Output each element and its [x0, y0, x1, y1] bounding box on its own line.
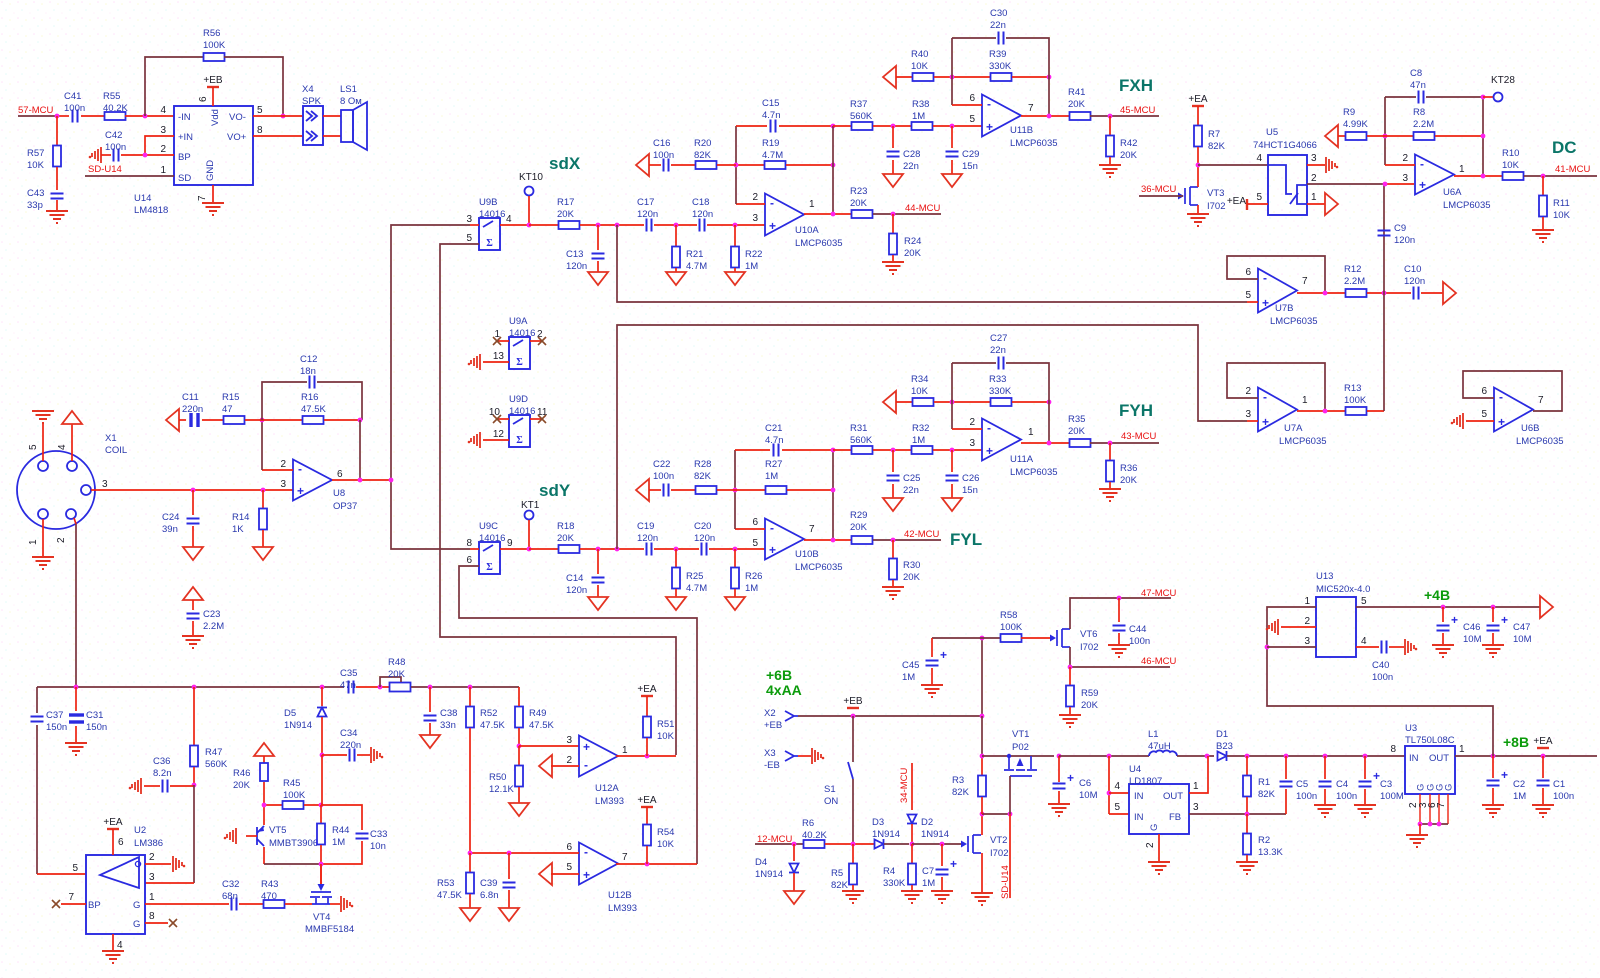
capacitor C16: [649, 164, 661, 166]
svg-text:R21: R21: [686, 249, 703, 260]
svg-text:KT28: KT28: [1491, 75, 1515, 86]
junction R26: [733, 547, 738, 552]
capacitor C4: [1324, 756, 1326, 779]
ground C31: [65, 743, 87, 755]
resistor R17: [529, 224, 559, 226]
wire C18 to U10A: [707, 224, 765, 226]
op-amp U6B: [1494, 388, 1533, 432]
svg-text:G: G: [133, 919, 140, 930]
svg-text:R25: R25: [686, 571, 703, 582]
power +EA R7: [1192, 105, 1204, 107]
svg-text:R15: R15: [222, 392, 239, 403]
svg-text:C14: C14: [566, 573, 583, 584]
terminal KT28: [1483, 96, 1493, 98]
op-amp U11A: [982, 419, 1021, 461]
svg-text:10K: 10K: [1502, 160, 1520, 171]
ground C24: [183, 547, 203, 560]
svg-text:6: 6: [1481, 386, 1487, 397]
switch U9D 14016: [509, 415, 530, 447]
svg-text:+IN: +IN: [178, 132, 193, 143]
svg-text:VT4: VT4: [313, 912, 330, 923]
svg-text:R27: R27: [765, 459, 782, 470]
ground U3: [1406, 835, 1428, 847]
ground R5: [842, 891, 864, 903]
svg-text:10M: 10M: [1463, 634, 1482, 645]
wire R18 to C19: [580, 548, 644, 550]
svg-text:1M: 1M: [912, 435, 925, 446]
svg-text:+6B: +6B: [766, 667, 792, 683]
svg-text:C37: C37: [46, 710, 63, 721]
svg-text:2: 2: [1304, 616, 1310, 627]
wire R6 to S1: [825, 843, 874, 845]
svg-text:7: 7: [68, 892, 74, 903]
svg-text:220n: 220n: [182, 404, 203, 415]
svg-text:C9: C9: [1394, 223, 1406, 234]
svg-text:1M: 1M: [912, 111, 925, 122]
wire R39 right: [1012, 76, 1049, 78]
svg-text:COIL: COIL: [105, 445, 127, 456]
capacitor C47: [1492, 607, 1494, 622]
svg-text:13: 13: [493, 351, 505, 362]
svg-text:82K: 82K: [694, 471, 712, 482]
svg-text:47.5K: 47.5K: [301, 404, 326, 415]
transistor VT2 I702: [968, 835, 981, 853]
svg-text:L1: L1: [1148, 729, 1159, 740]
svg-text:4: 4: [1114, 781, 1120, 792]
svg-text:4: 4: [57, 444, 68, 450]
wire R33 right: [1012, 401, 1049, 403]
svg-text:3: 3: [160, 125, 166, 136]
svg-text:4.7n: 4.7n: [765, 435, 784, 446]
VT2 drain wire: [981, 814, 983, 835]
svg-text:+EA: +EA: [637, 684, 657, 695]
resistor R12: [1346, 289, 1367, 297]
ground U14 pin7: [202, 203, 224, 215]
capacitor C23 node: [183, 587, 203, 600]
resistor R20: [671, 164, 696, 166]
capacitor C28: [892, 126, 894, 148]
capacitor C21: [774, 444, 779, 457]
svg-text:R44: R44: [332, 825, 349, 836]
svg-text:C36: C36: [153, 756, 170, 767]
VT3 source ground wire: [1197, 205, 1199, 214]
svg-text:-: -: [987, 421, 991, 435]
resistor R33: [991, 398, 1012, 406]
junction R11: [1541, 174, 1546, 179]
svg-text:+: +: [1498, 415, 1505, 429]
svg-text:LM386: LM386: [134, 838, 163, 849]
svg-text:120n: 120n: [637, 209, 658, 220]
svg-text:2: 2: [280, 459, 286, 470]
svg-text:C11: C11: [182, 392, 199, 403]
ground C44: [1108, 645, 1130, 657]
wire bus left down to U2 pin5: [36, 687, 38, 713]
svg-text:IN: IN: [1134, 812, 1144, 823]
resistor R32: [912, 446, 933, 454]
svg-text:2: 2: [969, 417, 975, 428]
wire R12 to C10: [1367, 292, 1411, 294]
resistor R29: [852, 536, 873, 544]
svg-text:U12B: U12B: [608, 890, 632, 901]
svg-text:14016: 14016: [509, 406, 535, 417]
switch U9A 14016: [509, 337, 530, 369]
U6A feedback network: [1385, 96, 1416, 98]
svg-text:SPK: SPK: [302, 96, 322, 107]
svg-text:LD1807: LD1807: [1129, 776, 1162, 787]
U5 pin5 +EA: [1246, 199, 1248, 210]
trimmer R48: [390, 683, 411, 692]
svg-text:FYL: FYL: [950, 530, 982, 549]
svg-text:1M: 1M: [332, 837, 345, 848]
resistor R1: [1246, 756, 1248, 776]
wire R37 input: [833, 125, 852, 127]
wire 42-MCU: [873, 539, 941, 541]
ground R50: [509, 803, 529, 816]
svg-text:R28: R28: [694, 459, 711, 470]
junction pin3 node: [1383, 182, 1388, 187]
svg-text:U9D: U9D: [509, 394, 528, 405]
svg-text:3: 3: [149, 872, 155, 883]
U13 pin4 wire C40: [1356, 646, 1379, 648]
svg-text:2: 2: [566, 755, 572, 766]
svg-text:1: 1: [809, 199, 815, 210]
wire 36-MCU to VT3 gate: [1139, 195, 1183, 197]
svg-text:LMCP6035: LMCP6035: [1010, 467, 1058, 478]
U3 output wire: [1455, 755, 1597, 757]
capacitor C15: [771, 120, 776, 133]
junction X1 pin2 bus: [74, 685, 79, 690]
svg-text:I702: I702: [1080, 642, 1099, 653]
svg-text:R54: R54: [657, 827, 674, 838]
wire 12-MCU row: [755, 843, 804, 845]
resistor R14: [262, 490, 264, 509]
svg-text:R4: R4: [883, 866, 895, 877]
svg-text:8: 8: [149, 911, 155, 922]
junction C47: [1491, 605, 1496, 610]
capacitor C2: [1492, 756, 1494, 778]
ground R14: [253, 547, 273, 560]
svg-text:R46: R46: [233, 768, 250, 779]
svg-text:FXH: FXH: [1119, 76, 1153, 95]
resistor R10: [1503, 172, 1524, 180]
resistor R53: [469, 853, 471, 873]
main bus lower: [37, 686, 344, 688]
svg-text:-IN: -IN: [178, 112, 191, 123]
svg-text:22n: 22n: [990, 20, 1006, 31]
capacitor C14: [597, 549, 599, 574]
svg-text:B23: B23: [1216, 741, 1233, 752]
U8 output wire: [332, 479, 391, 481]
svg-text:4.7M: 4.7M: [686, 261, 707, 272]
junction U10B out: [831, 538, 836, 543]
svg-text:Σ: Σ: [516, 435, 523, 446]
capacitor C30: [999, 32, 1004, 45]
svg-text:8: 8: [257, 125, 263, 136]
svg-text:D5: D5: [284, 708, 296, 719]
resistor R54: [643, 825, 651, 846]
svg-text:1: 1: [1302, 395, 1308, 406]
resistor R56: [204, 53, 225, 61]
svg-text:U5: U5: [1266, 127, 1278, 138]
resistor R4: [911, 844, 913, 864]
svg-text:15n: 15n: [962, 485, 978, 496]
svg-text:R29: R29: [850, 510, 867, 521]
arrow U12B pin5: [539, 863, 552, 885]
svg-text:R18: R18: [557, 521, 574, 532]
resistor R6: [804, 840, 825, 848]
svg-text:R40: R40: [911, 49, 928, 60]
junction R8 right: [1481, 134, 1486, 139]
svg-text:100n: 100n: [64, 103, 85, 114]
ground sideways C34: [371, 747, 380, 763]
svg-text:5: 5: [1481, 409, 1487, 420]
svg-text:1: 1: [622, 745, 628, 756]
capacitor C41: [73, 110, 78, 123]
junction R12/C9: [1382, 291, 1387, 296]
junction R16 right: [358, 418, 363, 423]
ground C4: [1314, 805, 1336, 817]
svg-text:-: -: [584, 758, 588, 772]
capacitor C37: [31, 717, 44, 722]
svg-text:47n: 47n: [340, 680, 356, 691]
svg-text:10K: 10K: [1553, 210, 1571, 221]
svg-text:BP: BP: [88, 900, 101, 911]
resistor R25: [675, 549, 677, 568]
ground R11: [1532, 230, 1554, 242]
bus sdY to U7A pin3: [617, 325, 1247, 549]
resistor R45: [264, 804, 283, 806]
junction R33 right: [1047, 400, 1052, 405]
U11B output: [1021, 115, 1070, 117]
junction BP: [143, 153, 148, 158]
svg-text:34-MCU: 34-MCU: [899, 767, 910, 803]
resistor R35: [1070, 439, 1091, 447]
arrow C11 input: [166, 409, 179, 431]
capacitor C32: [232, 898, 237, 911]
junction VT4 gate node: [319, 862, 324, 867]
capacitor C35: [349, 681, 354, 694]
svg-text:R20: R20: [694, 138, 711, 149]
arrow R46 top: [254, 743, 274, 756]
wire C20 to U10B: [709, 548, 765, 550]
diode D4 1N914: [793, 844, 795, 861]
junction C36: [192, 783, 197, 788]
resistor R24: [892, 214, 894, 234]
svg-text:OP37: OP37: [333, 501, 357, 512]
svg-text:BP: BP: [178, 152, 191, 163]
wire VT4 gate: [320, 864, 322, 884]
resistor R42: [1109, 116, 1111, 136]
VT2 source ground: [981, 853, 983, 893]
resistor R23: [852, 210, 873, 218]
svg-text:R58: R58: [1000, 610, 1017, 621]
capacitor C20: [702, 543, 707, 556]
ground sideways C36: [132, 778, 141, 794]
svg-text:3: 3: [1193, 802, 1199, 813]
junction C46: [1441, 605, 1446, 610]
svg-text:82K: 82K: [694, 150, 712, 161]
svg-text:GND: GND: [205, 160, 216, 181]
svg-text:R7: R7: [1208, 129, 1220, 140]
svg-text:+: +: [769, 219, 776, 233]
resistor R19: [736, 164, 765, 166]
svg-text:C17: C17: [637, 197, 654, 208]
feedback R34 R33 row: [883, 391, 896, 413]
wire R16 to output: [359, 420, 361, 480]
wire C21 to R31 node: [782, 449, 833, 451]
junction R53: [468, 851, 473, 856]
svg-text:1N914: 1N914: [284, 720, 312, 731]
feedback vertical U10A: [736, 203, 765, 205]
svg-text:100K: 100K: [283, 790, 306, 801]
capacitor C27: [999, 357, 1004, 370]
svg-text:220n: 220n: [340, 740, 361, 751]
wire to U12A pin3: [519, 745, 579, 747]
capacitor C10: [1414, 287, 1419, 300]
resistor R49: [515, 707, 523, 728]
svg-text:120n: 120n: [566, 261, 587, 272]
resistor R8: [1414, 132, 1435, 140]
op-amp U11B: [982, 95, 1021, 137]
svg-text:U7A: U7A: [1284, 423, 1303, 434]
svg-text:7: 7: [1436, 802, 1447, 808]
junction R45 left: [262, 803, 267, 808]
capacitor C29: [951, 126, 953, 148]
svg-text:MIC520x-4.0: MIC520x-4.0: [1316, 584, 1370, 595]
svg-text:20K: 20K: [1120, 150, 1138, 161]
bus sdX to U7B pin5: [617, 225, 1247, 302]
wire VT2 node right: [982, 813, 1010, 815]
junction U13 pin3: [1265, 645, 1270, 650]
svg-text:150n: 150n: [46, 722, 67, 733]
svg-text:LM393: LM393: [608, 903, 637, 914]
svg-text:2.2M: 2.2M: [203, 621, 224, 632]
svg-text:-: -: [1499, 390, 1503, 404]
vertical D5-C34-R44 line: [321, 687, 323, 706]
U4 OUT wire up: [1189, 756, 1208, 793]
svg-text:R22: R22: [745, 249, 762, 260]
wire VO- to X4: [253, 115, 303, 117]
junction C38: [428, 685, 433, 690]
U10B output wire: [804, 539, 852, 541]
svg-text:+EA: +EA: [1227, 196, 1247, 207]
capacitor C18: [700, 219, 705, 232]
svg-text:D2: D2: [921, 817, 933, 828]
svg-text:KT1: KT1: [521, 500, 540, 511]
VT5 emitter wire: [263, 782, 265, 825]
svg-text:6: 6: [337, 469, 343, 480]
svg-text:330K: 330K: [989, 61, 1012, 72]
svg-text:2: 2: [149, 852, 155, 863]
VT6 drain wire 47-MCU: [1070, 598, 1171, 629]
resistor R9: [1338, 135, 1345, 137]
svg-text:+: +: [1419, 178, 1426, 192]
U13 input loop from +8B: [1267, 607, 1493, 756]
svg-text:100K: 100K: [1000, 622, 1023, 633]
switch U9C 14016: [479, 542, 500, 574]
U7A pin3 stub: [1247, 420, 1258, 422]
svg-text:100M: 100M: [1380, 791, 1404, 802]
wire R7 to VT3: [1197, 147, 1199, 185]
svg-text:+4B: +4B: [1424, 587, 1450, 603]
svg-text:57-MCU: 57-MCU: [18, 105, 54, 116]
svg-text:C28: C28: [903, 149, 920, 160]
svg-text:C32: C32: [222, 879, 239, 890]
op-amp U10A: [765, 194, 804, 236]
diode D2 1N914: [907, 815, 917, 824]
svg-text:R3: R3: [952, 775, 964, 786]
svg-text:42-MCU: 42-MCU: [904, 529, 940, 540]
svg-text:8: 8: [1390, 744, 1396, 755]
input arrow sdX filter: [636, 154, 649, 176]
svg-text:47uH: 47uH: [1148, 741, 1171, 752]
svg-text:14016: 14016: [479, 209, 505, 220]
svg-text:3: 3: [566, 735, 572, 746]
resistor R52: [469, 687, 471, 706]
junction C5: [1284, 754, 1289, 759]
svg-text:6.8n: 6.8n: [480, 890, 499, 901]
svg-text:R39: R39: [989, 49, 1006, 60]
wire R34-R33: [934, 401, 990, 403]
resistor R5: [852, 844, 854, 864]
svg-text:R33: R33: [989, 374, 1006, 385]
svg-text:LMCP6035: LMCP6035: [1516, 436, 1564, 447]
junction C4: [1323, 754, 1328, 759]
C12 feedback loop: [262, 382, 307, 420]
wire R48 to bus right: [411, 686, 519, 688]
junction: [55, 114, 60, 119]
wire D2 to C7: [912, 843, 965, 845]
svg-text:C7: C7: [922, 866, 934, 877]
svg-text:R43: R43: [261, 879, 278, 890]
svg-text:SD-U14: SD-U14: [88, 164, 122, 175]
resistor R2: [1246, 814, 1248, 834]
resistor R34: [913, 398, 934, 406]
resistor R7: [1194, 126, 1202, 147]
svg-text:47.5K: 47.5K: [437, 890, 462, 901]
output arrow DC path: [1421, 292, 1443, 294]
wire U8 out down to sdY row: [391, 480, 470, 549]
svg-text:C18: C18: [692, 197, 709, 208]
U8 feedback to R16: [262, 469, 293, 471]
svg-text:R56: R56: [203, 28, 220, 39]
wire R31-R32: [873, 449, 912, 451]
svg-text:5: 5: [466, 233, 472, 244]
svg-text:X1: X1: [105, 433, 117, 444]
resistor R50: [518, 746, 520, 765]
capacitor C43: [51, 194, 64, 199]
svg-text:R19: R19: [762, 138, 779, 149]
svg-text:-: -: [584, 845, 588, 859]
ground C25: [883, 498, 903, 511]
svg-text:20K: 20K: [850, 198, 868, 209]
capacitor C36: [144, 785, 160, 787]
svg-text:C1: C1: [1553, 779, 1565, 790]
IC U14 LM4818 box: [174, 106, 253, 185]
svg-text:5: 5: [566, 862, 572, 873]
svg-text:47: 47: [222, 404, 233, 415]
svg-text:D3: D3: [872, 817, 884, 828]
svg-text:IN: IN: [1134, 791, 1144, 802]
svg-text:C29: C29: [962, 149, 979, 160]
wire R37-R38: [873, 125, 912, 127]
ground R4: [901, 891, 923, 903]
U5 pin2 wire to U6A: [1307, 183, 1385, 185]
svg-text:40.2K: 40.2K: [103, 103, 128, 114]
svg-text:6: 6: [969, 93, 975, 104]
junction C6: [1057, 754, 1062, 759]
junction C25: [891, 448, 896, 453]
